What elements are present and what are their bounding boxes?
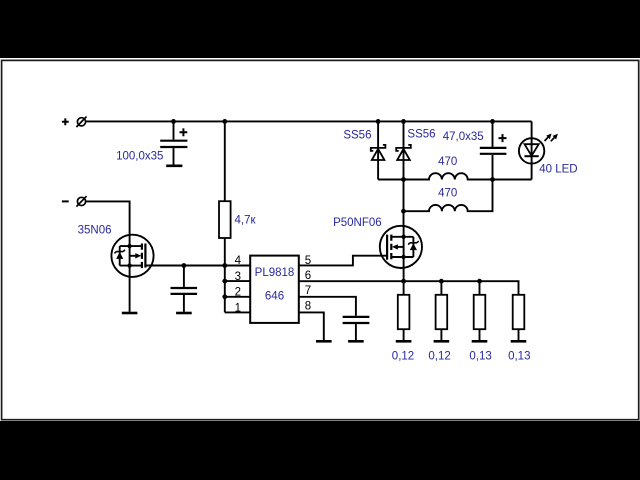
node: rail-VD1 junction [376, 119, 381, 124]
ground under R2 [434, 340, 450, 343]
svg-text:8: 8 [305, 301, 311, 313]
ground under Q1 [122, 312, 138, 315]
IC U1 PL9818 [250, 256, 299, 323]
capacitor C3 [171, 266, 198, 312]
node: rail-C2 junction [490, 119, 495, 124]
svg-text:2: 2 [235, 287, 241, 299]
LED arrows [545, 134, 558, 142]
ground under pin 8 [316, 340, 332, 343]
resistor R4 0,13 [513, 295, 525, 340]
ground under R3 [472, 340, 488, 343]
node: C2 bottom / wire1 [490, 177, 495, 182]
wire: pin 6 sense rail [299, 281, 519, 295]
svg-text:3: 3 [235, 271, 241, 283]
svg-text:100,0x35: 100,0x35 [116, 150, 163, 162]
transistor Q1 35N06 [111, 235, 153, 277]
svg-text:PL9818: PL9818 [255, 267, 295, 279]
node: gate wire / C3 [182, 263, 187, 268]
svg-text:1: 1 [235, 303, 241, 315]
svg-text:0,13: 0,13 [508, 351, 530, 363]
node: gate wire / bus-R5 [222, 263, 227, 268]
wire: pin 2 stub [225, 296, 250, 298]
inductor L2 470 with wire2 [404, 180, 493, 212]
capacitor C1 100,0x35 [160, 121, 187, 164]
svg-text:0,12: 0,12 [428, 351, 450, 363]
wire: Q1 source to ground [129, 277, 131, 312]
resistor R5 4,7k [219, 121, 231, 265]
capacitor C4 [343, 317, 370, 340]
resistor R1 0,12 [398, 281, 410, 340]
ground under R1 [396, 340, 412, 343]
svg-text:35N06: 35N06 [78, 224, 112, 236]
svg-text:4,7к: 4,7к [235, 214, 257, 226]
capacitor C2 47,0x35 [480, 121, 507, 179]
ground under R4 [511, 340, 527, 343]
svg-text:7: 7 [305, 285, 311, 297]
node: VD2 anode / wire2 [401, 209, 406, 214]
svg-text:SS56: SS56 [343, 130, 371, 142]
svg-text:5: 5 [305, 255, 311, 267]
wire: pin 7 to C4 [299, 297, 356, 316]
resistor R2 0,12 [436, 281, 448, 340]
wire: Q1 gate to IC bus [145, 265, 250, 267]
plus terminal label [62, 118, 69, 125]
wire: pin 5 to Q2 gate [299, 256, 387, 266]
svg-text:40 LED: 40 LED [539, 163, 577, 175]
minus terminal label [62, 200, 69, 202]
node: rail-VD2 junction [401, 119, 406, 124]
minus input terminal [76, 196, 86, 206]
node: bus pin2 [222, 294, 227, 299]
wire: pin 8 to ground [299, 312, 324, 340]
LED HL1 [519, 121, 544, 179]
svg-text:6: 6 [305, 270, 311, 282]
svg-text:P50NF06: P50NF06 [333, 217, 382, 229]
node: VD2 anode / wire1 [401, 177, 406, 182]
node: rail-R5 junction [222, 119, 227, 124]
svg-text:0,13: 0,13 [469, 351, 491, 363]
node: bus pin3 [222, 279, 227, 284]
wire: pin 3 stub [225, 280, 250, 282]
svg-text:470: 470 [438, 156, 457, 168]
wire: + rail [86, 120, 532, 122]
svg-text:SS56: SS56 [407, 129, 435, 141]
wire: pin bus [224, 266, 226, 313]
wire: pin 1 stub [225, 311, 250, 313]
node: rail Q2 source / R1 [401, 279, 406, 284]
diode VD1 SS56 [371, 121, 386, 179]
svg-text:0,12: 0,12 [392, 351, 414, 363]
node: rail R3 [477, 279, 482, 284]
transistor Q2 P50NF06 [380, 226, 422, 268]
resistor R3 0,13 [474, 281, 486, 340]
diode VD2 SS56 [396, 121, 411, 226]
svg-text:47,0x35: 47,0x35 [443, 131, 484, 143]
plus input terminal [76, 117, 86, 127]
ground under C4 [348, 340, 364, 343]
svg-text:4: 4 [235, 255, 242, 267]
inductor L1 470 with wire1 [378, 173, 531, 179]
wire: Q2 source down [403, 268, 405, 281]
wire: minus input to Q1 drain [86, 201, 130, 235]
node: rail R2 [439, 279, 444, 284]
svg-text:646: 646 [265, 291, 284, 303]
ground bar under C1 [166, 165, 182, 168]
node: rail-C1 junction [171, 119, 176, 124]
ground under C3 [176, 312, 192, 315]
svg-text:470: 470 [438, 188, 457, 200]
